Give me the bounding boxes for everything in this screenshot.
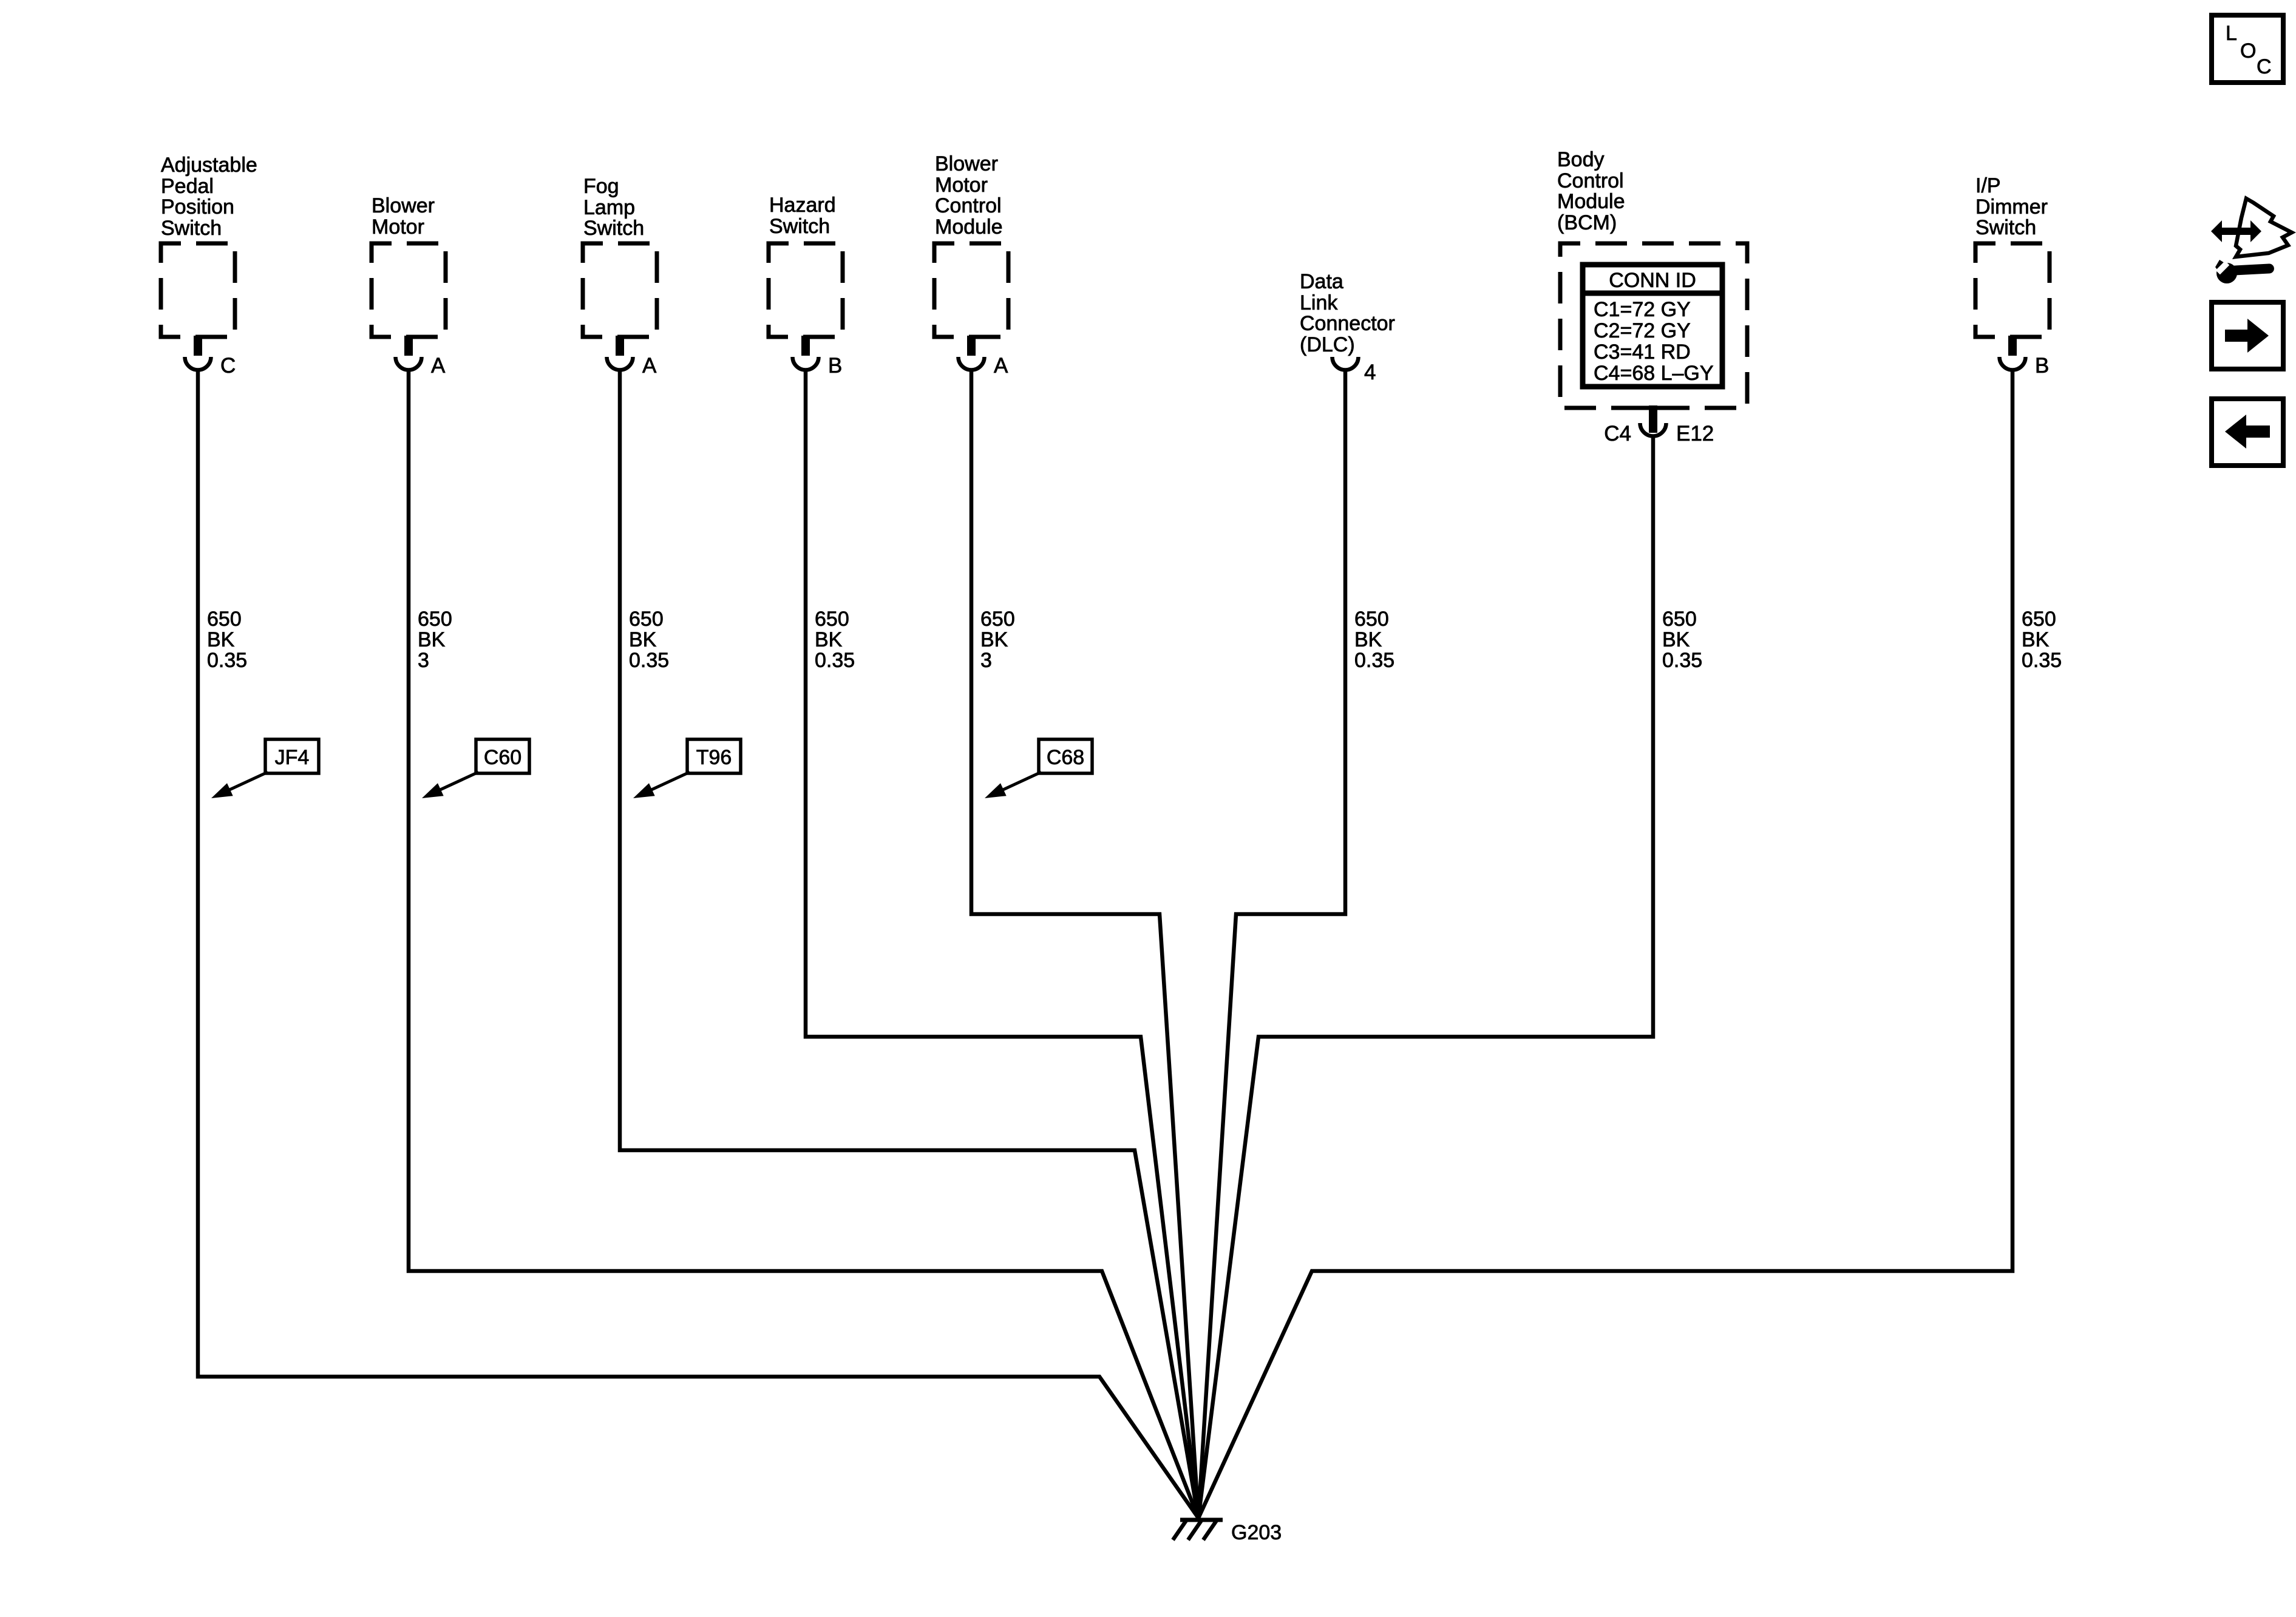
wire label 650 BK 0.35 at x=2216 (1354, 608, 1394, 672)
pin stub Hazard Switch (801, 336, 810, 356)
label Blower Motor Control Module (935, 152, 1003, 239)
component box Fog Lamp Switch (dashed) (583, 243, 657, 337)
service icon: wrench (2215, 260, 2274, 283)
svg-text:Body: Body (1557, 148, 1605, 171)
svg-text:Switch: Switch (583, 217, 644, 240)
svg-text:Adjustable: Adjustable (161, 154, 257, 177)
forward arrow box (2212, 302, 2283, 369)
component box I/P Dimmer Switch (dashed) (1975, 243, 2050, 337)
pin letter B (I/P Dimmer Switch) (2035, 354, 2049, 378)
pin stub Body Control Module C4 (1649, 405, 1657, 433)
svg-text:0.35: 0.35 (1662, 649, 1702, 672)
svg-text:B: B (828, 354, 842, 378)
wire label 650 BK 3 at x=1600 (980, 608, 1015, 672)
LOC letters (2226, 22, 2272, 78)
wire W6 Data Link Connector to G203 (1198, 371, 1345, 1518)
svg-text:BK: BK (980, 628, 1008, 651)
svg-text:650: 650 (1354, 608, 1389, 631)
svg-text:650: 650 (815, 608, 849, 631)
svg-text:650: 650 (418, 608, 452, 631)
connector arc pin B of Hazard Switch (793, 357, 819, 370)
label Fog Lamp Switch (583, 175, 644, 240)
svg-text:3: 3 (980, 649, 992, 672)
CONN ID header text (1609, 269, 1696, 292)
svg-text:Pedal: Pedal (161, 175, 214, 198)
pin letter A (Blower Motor) (431, 354, 446, 378)
back arrow (2225, 415, 2270, 449)
svg-text:G203: G203 (1231, 1521, 1282, 1544)
svg-text:Hazard: Hazard (769, 194, 836, 217)
svg-text:Dimmer: Dimmer (1975, 195, 2048, 219)
svg-text:Lamp: Lamp (583, 196, 635, 219)
component box Blower Motor (dashed) (372, 243, 446, 337)
svg-text:I/P: I/P (1975, 174, 2001, 197)
svg-text:BK: BK (2022, 628, 2050, 651)
wire label 650 BK 0.35 at x=1327 (815, 608, 855, 672)
svg-text:Motor: Motor (372, 215, 424, 239)
wire W3 Fog Lamp Switch to G203 (620, 371, 1198, 1518)
wire label 650 BK 0.35 at x=326 (207, 608, 247, 672)
inline connector JF4 (211, 739, 319, 798)
forward arrow (2225, 319, 2269, 353)
CONN ID table box (1583, 265, 1722, 387)
svg-text:A: A (642, 354, 657, 378)
svg-text:Fog: Fog (583, 175, 619, 198)
svg-text:3: 3 (418, 649, 429, 672)
connector arc pin C of Adjustable Pedal Position Switch (185, 357, 211, 370)
label Data Link Connector (DLC) (1300, 270, 1395, 356)
wire W2 Blower Motor to G203 (409, 371, 1198, 1518)
wire W4 Hazard Switch to G203 (806, 371, 1198, 1518)
wire W8 I/P Dimmer Switch to G203 (1198, 371, 2012, 1518)
svg-text:B: B (2035, 354, 2049, 378)
connector label C4 (1604, 422, 1631, 446)
component box Body Control Module BCM (dashed) (1560, 243, 1747, 408)
svg-text:BK: BK (1662, 628, 1690, 651)
svg-text:BK: BK (1354, 628, 1382, 651)
pin letter B (Hazard Switch) (828, 354, 842, 378)
LOC reference box (2212, 15, 2283, 83)
CONN ID rows (1594, 298, 1714, 385)
svg-text:BK: BK (418, 628, 446, 651)
svg-text:(DLC): (DLC) (1300, 333, 1355, 356)
svg-text:A: A (431, 354, 446, 378)
label Blower Motor (372, 194, 435, 239)
ground hatch slash 3 (1203, 1520, 1217, 1540)
inline connector C60 (422, 739, 529, 798)
svg-text:0.35: 0.35 (1354, 649, 1394, 672)
svg-text:650: 650 (207, 608, 242, 631)
svg-text:O: O (2240, 39, 2256, 63)
svg-text:650: 650 (2022, 608, 2056, 631)
svg-text:C4=68 L–GY: C4=68 L–GY (1594, 362, 1714, 385)
CONN ID header divider (1583, 291, 1722, 296)
connector arc pin A of Blower Motor Control Module (959, 357, 985, 370)
back arrow box (2212, 399, 2283, 466)
connector arc pin 4 of Data Link Connector (1333, 357, 1359, 370)
wire label 650 BK 0.35 at x=2723 (1662, 608, 1702, 672)
svg-text:BK: BK (629, 628, 657, 651)
svg-text:0.35: 0.35 (629, 649, 669, 672)
label Adjustable Pedal Position Switch (161, 154, 257, 240)
service icon: outline shape (2236, 198, 2292, 257)
pin stub Blower Motor (404, 336, 413, 356)
svg-text:C4: C4 (1604, 422, 1631, 446)
svg-text:Switch: Switch (769, 215, 830, 238)
svg-text:JF4: JF4 (275, 746, 310, 769)
component box Hazard Switch (dashed) (769, 243, 843, 337)
pin stub Fog Lamp Switch (616, 336, 624, 356)
connector arc pin A of Blower Motor (396, 357, 422, 370)
svg-text:C1=72 GY: C1=72 GY (1594, 298, 1691, 321)
svg-text:4: 4 (1364, 361, 1376, 384)
wire W7 Body Control Module to G203 (1198, 437, 1653, 1518)
inline connector C68 (985, 739, 1092, 798)
svg-text:650: 650 (629, 608, 664, 631)
ground name G203 (1231, 1521, 1282, 1544)
svg-text:Blower: Blower (935, 152, 998, 175)
svg-text:BK: BK (815, 628, 843, 651)
svg-text:Motor: Motor (935, 174, 988, 197)
BCM bottom-edge dash at stub (T junction) (1627, 406, 1679, 410)
wire W1 Adjustable Pedal Position Switch to G203 (198, 371, 1198, 1518)
svg-text:Module: Module (1557, 190, 1625, 213)
svg-text:C: C (220, 354, 236, 378)
svg-text:L: L (2226, 22, 2237, 45)
pin stub Adjustable Pedal Position Switch (194, 336, 202, 356)
label I/P Dimmer Switch (1975, 174, 2048, 239)
pin letter A (Blower Motor Control Module) (994, 354, 1008, 378)
svg-text:C3=41 RD: C3=41 RD (1594, 341, 1691, 364)
svg-text:A: A (994, 354, 1008, 378)
svg-text:650: 650 (980, 608, 1015, 631)
ground hatch slash 2 (1188, 1520, 1201, 1540)
svg-text:C68: C68 (1047, 746, 1084, 769)
component box Adjustable Pedal Position Switch (dashed) (161, 243, 235, 337)
svg-text:Switch: Switch (1975, 216, 2036, 239)
svg-text:Position: Position (161, 195, 234, 219)
svg-text:650: 650 (1662, 608, 1697, 631)
svg-text:E12: E12 (1676, 422, 1714, 446)
wire label 650 BK 0.35 at x=1021 (629, 608, 669, 672)
svg-text:Blower: Blower (372, 194, 435, 217)
svg-text:Data: Data (1300, 270, 1343, 293)
svg-text:Switch: Switch (161, 217, 222, 240)
connector arc pin A of Fog Lamp Switch (607, 357, 633, 370)
svg-text:T96: T96 (696, 746, 732, 769)
inline connector T96 (633, 739, 741, 798)
svg-text:0.35: 0.35 (815, 649, 855, 672)
svg-text:BK: BK (207, 628, 235, 651)
pin stub Blower Motor Control Module (967, 336, 976, 356)
svg-text:C2=72 GY: C2=72 GY (1594, 319, 1691, 342)
pin letter A (Fog Lamp Switch) (642, 354, 657, 378)
pin number 4 (DLC) (1364, 361, 1376, 384)
wire W5 Blower Motor Control Module to G203 (971, 371, 1198, 1518)
connector label E12 (1676, 422, 1714, 446)
pin stub I/P Dimmer Switch (2008, 336, 2017, 356)
svg-text:Control: Control (935, 194, 1002, 217)
service icon: double arrow (2211, 220, 2261, 242)
svg-text:0.35: 0.35 (207, 649, 247, 672)
connector arc BCM connector C4/E12 (1640, 423, 1666, 436)
ground symbol G203 bar (1180, 1518, 1223, 1522)
svg-text:Module: Module (935, 215, 1003, 239)
component box Blower Motor Control Module (dashed) (934, 243, 1008, 337)
svg-text:Connector: Connector (1300, 312, 1395, 335)
svg-text:Control: Control (1557, 169, 1624, 192)
pin letter C (Adjustable Pedal Position Switch) (220, 354, 236, 378)
svg-text:CONN ID: CONN ID (1609, 269, 1696, 292)
svg-text:0.35: 0.35 (2022, 649, 2062, 672)
svg-text:Link: Link (1300, 291, 1338, 314)
svg-text:C: C (2257, 55, 2272, 78)
svg-text:C60: C60 (484, 746, 521, 769)
wire label 650 BK 3 at x=673 (418, 608, 452, 672)
connector arc pin B of I/P Dimmer Switch (2000, 357, 2026, 370)
wire label 650 BK 0.35 at x=3315 (2022, 608, 2062, 672)
label Hazard Switch (769, 194, 836, 238)
svg-text:(BCM): (BCM) (1557, 211, 1617, 234)
label Body Control Module (BCM) (1557, 148, 1625, 234)
ground hatch slash 1 (1173, 1520, 1186, 1540)
